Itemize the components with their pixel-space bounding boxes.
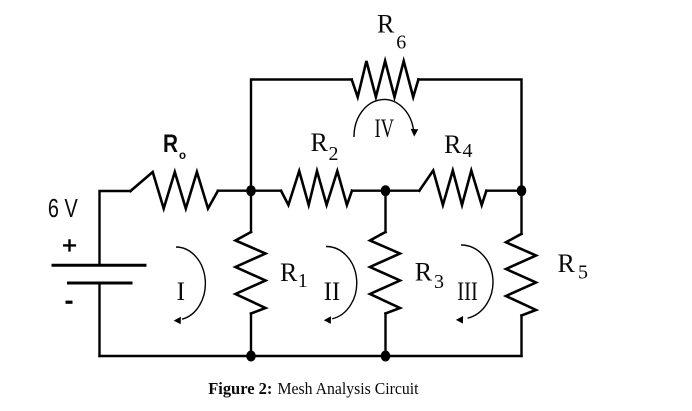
resistor R3 — [370, 232, 400, 314]
mesh current arrow III — [456, 245, 493, 324]
svg-text:R: R — [280, 258, 298, 287]
wire top loop right (down to node C) — [418, 80, 521, 191]
svg-text:IV: IV — [375, 114, 395, 143]
svg-text:5: 5 — [578, 262, 588, 284]
node A junction dot — [246, 185, 256, 196]
svg-text:R: R — [163, 130, 178, 158]
node E junction dot (bottom R3) — [381, 351, 391, 362]
node D junction dot (bottom R1) — [246, 351, 256, 362]
resistor R5 — [506, 234, 536, 316]
wire R4 to node C — [486, 189, 521, 191]
node C junction dot — [517, 185, 527, 196]
svg-text:2: 2 — [329, 143, 339, 165]
wire R5 top lead — [520, 191, 522, 234]
resistor R4 — [419, 171, 486, 206]
svg-text:6: 6 — [396, 31, 406, 53]
svg-text:Mesh Analysis Circuit: Mesh Analysis Circuit — [278, 379, 419, 398]
wire node A to R2 — [251, 189, 281, 191]
battery source 6V plates — [53, 265, 145, 283]
svg-text:R: R — [558, 249, 576, 278]
wire R3 top lead — [384, 191, 386, 232]
resistor R1 — [236, 232, 266, 314]
wire R2 to node B — [352, 189, 386, 191]
resistor Ro — [131, 172, 218, 209]
svg-text:R: R — [444, 130, 462, 159]
label - (battery negative) — [66, 301, 73, 304]
wire node B to R4 — [386, 189, 420, 191]
wire left rail bottom (battery - to bottom rail) — [98, 283, 100, 356]
svg-text:6 V: 6 V — [48, 193, 78, 223]
wire top loop left (node A up) — [251, 80, 352, 191]
svg-text:R: R — [415, 258, 433, 287]
svg-text:I: I — [177, 277, 185, 306]
wire Ro to node A — [218, 189, 251, 191]
svg-text:3: 3 — [434, 271, 444, 293]
mesh current arrow I — [174, 247, 206, 324]
svg-text:III: III — [457, 277, 478, 306]
node B junction dot — [381, 185, 391, 196]
svg-text:4: 4 — [463, 140, 473, 162]
svg-text:II: II — [324, 277, 340, 306]
svg-text:o: o — [179, 150, 186, 162]
mesh current arrow IV — [354, 100, 418, 137]
label + (battery positive) — [63, 239, 76, 251]
svg-text:1: 1 — [298, 270, 308, 292]
svg-text:Figure 2:: Figure 2: — [208, 379, 272, 398]
wire R5 bottom lead — [520, 316, 522, 357]
wire bottom rail — [100, 355, 522, 357]
mesh current arrow II — [324, 246, 357, 323]
wire left rail top (battery + to mid rail) — [100, 191, 131, 264]
wire R3 bottom lead — [384, 314, 386, 357]
resistor R6 — [352, 61, 419, 97]
svg-text:R: R — [377, 10, 395, 39]
wire R1 top lead — [250, 191, 252, 232]
wire R1 bottom lead — [250, 314, 252, 357]
svg-text:R: R — [311, 128, 329, 157]
resistor R2 — [281, 171, 352, 205]
